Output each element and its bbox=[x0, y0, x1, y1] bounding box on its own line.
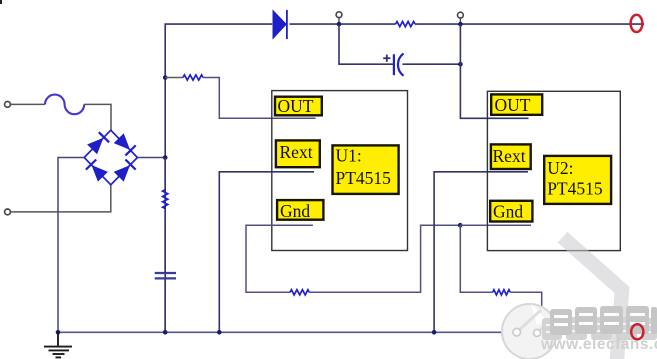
U2 pin label OUT bbox=[491, 94, 542, 115]
resistor R1 (U1 current set) bbox=[290, 290, 309, 295]
wire: node A to resistor R3 bbox=[339, 23, 396, 25]
junction bus/U1 Rext bbox=[217, 330, 222, 335]
U1 pin label OUT bbox=[275, 96, 322, 116]
svg-text:Rext: Rext bbox=[493, 146, 526, 166]
wire: D1 cathode to node A bbox=[290, 23, 340, 25]
svg-text:OUT: OUT bbox=[495, 95, 531, 115]
input terminal L (line) bbox=[5, 102, 11, 108]
resistor R3 (top rail) bbox=[396, 22, 415, 27]
junction U2 Gnd net bbox=[458, 223, 463, 228]
wire: R1 to U2 Gnd net bbox=[309, 225, 460, 292]
wire: R5 to U1 OUT pin bbox=[203, 78, 316, 119]
capacitor C2 polarized bbox=[383, 54, 403, 76]
U1 pin label Rext bbox=[276, 140, 320, 167]
wire: R3 to node B and out to terminal bbox=[415, 23, 644, 25]
watermark elecfans arrow band bbox=[568, 242, 622, 359]
wire: node B down to U2 OUT pin bbox=[460, 24, 528, 118]
ground symbol bbox=[44, 332, 72, 357]
resistor R2 (U2 current set) bbox=[493, 290, 511, 295]
junction at R5 branch bbox=[163, 75, 168, 80]
U1 package box bbox=[272, 91, 408, 251]
junction bus/main vertical bbox=[163, 330, 168, 335]
U1 designator label U1: PT4515 bbox=[333, 145, 399, 194]
watermark text row2 (offset copy) bbox=[542, 317, 657, 340]
svg-text:U1:: U1: bbox=[336, 145, 362, 165]
fuse F1 bbox=[45, 95, 84, 115]
wire: C2 to node C on vertical bbox=[403, 63, 461, 65]
U2 pin label Gnd bbox=[490, 201, 532, 222]
wire: Gnd junction down to R2 bbox=[460, 225, 492, 292]
wire: fuse to bridge top vertex bbox=[84, 104, 111, 130]
wire: terminal N to bridge bottom vertex bbox=[10, 185, 110, 212]
terminal above node A bbox=[336, 12, 342, 24]
U1 pin label Gnd bbox=[277, 200, 323, 221]
diode D1 bbox=[273, 10, 287, 39]
svg-text:OUT: OUT bbox=[278, 96, 314, 116]
input terminal N (neutral) bbox=[5, 209, 11, 215]
watermark text 电子发烧友 row1 bbox=[550, 306, 657, 335]
wire: top rail from main bus corner to diode D1 anode bbox=[165, 24, 272, 332]
wire: R2 down to ground bus bbox=[510, 292, 542, 332]
wire: lead to resistor R5 bbox=[165, 77, 183, 79]
U2 pin label Rext bbox=[491, 144, 531, 169]
wire: bridge left vertex to ground bus bbox=[58, 158, 84, 333]
svg-text:PT4515: PT4515 bbox=[547, 179, 603, 199]
svg-text:Gnd: Gnd bbox=[280, 201, 310, 221]
wire: U2 Gnd pin line bbox=[460, 224, 531, 226]
svg-text:Gnd: Gnd bbox=[493, 202, 523, 222]
wire: U1 Rext pin to ground bus bbox=[219, 172, 314, 332]
wire: terminal L to fuse F1 bbox=[10, 103, 45, 105]
resistor R4 (vertical on main bus) bbox=[163, 190, 168, 209]
junction bus/ground bbox=[56, 330, 61, 335]
capacitor C1 (filter) bbox=[155, 273, 176, 278]
watermark elecfans logo circle bbox=[502, 304, 557, 359]
top-left corner artifact bbox=[0, 0, 2, 4]
wire: U2 Rext pin to ground bus bbox=[434, 172, 528, 332]
resistor R5 (U1 OUT feed) bbox=[183, 75, 203, 80]
svg-text:Rext: Rext bbox=[280, 142, 313, 162]
junction on main vertical at bridge output bbox=[163, 155, 168, 160]
ground bus wire bbox=[58, 331, 632, 333]
junction node A bbox=[337, 22, 342, 27]
red output terminal top bbox=[631, 15, 643, 32]
svg-text:U2:: U2: bbox=[547, 158, 573, 178]
U2 package box bbox=[487, 91, 620, 250]
terminal above node B bbox=[458, 12, 464, 24]
svg-text:PT4515: PT4515 bbox=[336, 168, 392, 188]
wire: bridge right vertex to main vertical bbox=[137, 157, 165, 159]
junction node B bbox=[458, 22, 463, 27]
wire: U1 Gnd pin lead bbox=[246, 225, 313, 292]
bridge rectifier BR1 bbox=[84, 130, 137, 185]
junction node C bbox=[458, 62, 463, 67]
wire: node A down and right to capacitor C2 bbox=[339, 24, 394, 64]
red output terminal bottom bbox=[631, 324, 643, 339]
U2 designator label U2: PT4515 bbox=[544, 156, 611, 204]
junction bus/U2 Rext bbox=[432, 330, 437, 335]
wire: main vertical lower segments (mask for components) bbox=[164, 158, 166, 333]
